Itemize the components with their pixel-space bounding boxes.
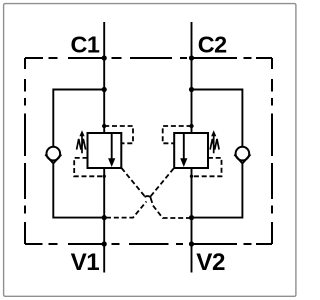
wire check branch right top (192, 90, 243, 148)
wire check branch left top (53, 90, 104, 148)
port label V2 (196, 249, 225, 276)
svg-text:C2: C2 (198, 32, 227, 58)
port label C1 (70, 32, 99, 58)
pilot line CB2 top (from C2) (163, 126, 192, 143)
junction dots left line (102, 55, 107, 246)
enclosure boundary bottom edge (dashed) (25, 243, 272, 245)
junction dots right line (189, 55, 194, 246)
wire C2-V2 main line upper (191, 22, 193, 133)
svg-text:V2: V2 (196, 249, 225, 276)
wire C1-V1 main line lower (103, 168, 105, 273)
check valve CV1 (45, 147, 61, 164)
counterbalance valve CB1 body (88, 133, 122, 168)
wire C1-V1 main line upper (103, 22, 105, 133)
pilot line CB1 top (from C1) (104, 126, 133, 143)
svg-text:V1: V1 (71, 249, 100, 276)
crossed pilot line A upper part (center to CB2 corner) (151, 168, 174, 196)
wire C2-V2 main line lower (191, 168, 193, 273)
enclosure boundary top edge (dashed) (25, 57, 272, 59)
adjustable spring CB2 (210, 130, 219, 153)
check valve CV2 (234, 147, 250, 164)
crossed pilot line A lower part (V1 node toward center) (106, 202, 146, 218)
svg-text:C1: C1 (70, 32, 99, 58)
wire check branch left bottom (53, 164, 104, 218)
crossed pilot line B first part (CB1 corner to center) (122, 168, 145, 196)
port label V1 (71, 249, 100, 276)
crossed pilot line B second part (center to V2 node) (153, 206, 190, 218)
enclosure boundary left edge (dashed) (24, 58, 26, 244)
pilot line CB1 spring side (74, 158, 103, 176)
port label C2 (198, 32, 227, 58)
crossed pilot line B hop bridge (145, 196, 153, 203)
enclosure boundary right edge (dashed) (271, 58, 273, 244)
adjustable spring CB1 (77, 130, 86, 153)
counterbalance valve CB2 body (174, 133, 208, 168)
pilot line CB2 spring side (192, 158, 221, 176)
wire check branch right bottom (192, 164, 243, 218)
